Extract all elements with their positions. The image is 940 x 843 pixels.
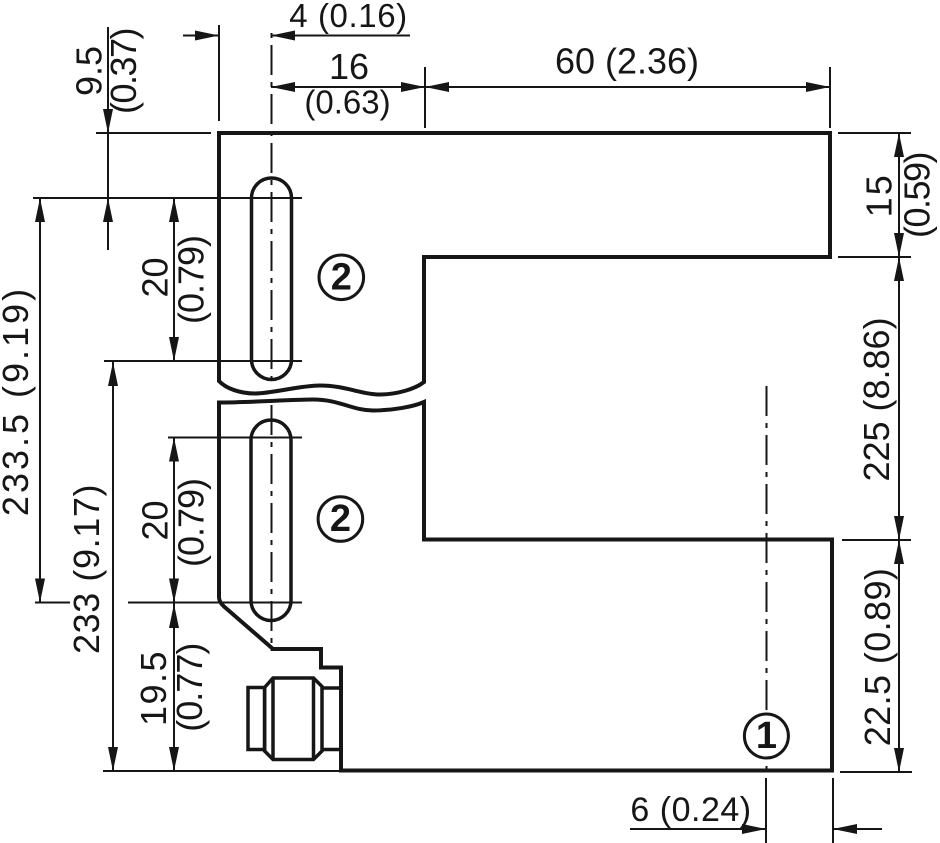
svg-text:16: 16: [329, 46, 369, 87]
svg-text:(0.37): (0.37): [103, 29, 144, 114]
extension line upper slot bottom arc center (y=361): [104, 360, 302, 362]
arrow right 60 dim: [806, 82, 830, 92]
M12 connector hex nut silhouette: [265, 678, 322, 760]
dimension line 20 (0.79) upper: [173, 198, 175, 361]
arrow down 20 upper dim: [169, 337, 179, 361]
arrow up 225 dim: [894, 257, 904, 281]
dimension line 4 (0.16): [183, 35, 219, 37]
centerline lower slot: [271, 405, 273, 651]
centerline optical axis (1): [766, 384, 768, 770]
arrow right at body left edge (4 dim): [195, 31, 219, 41]
svg-text:6 (0.24): 6 (0.24): [630, 791, 751, 829]
svg-text:(0.77): (0.77): [169, 644, 210, 732]
svg-text:15: 15: [859, 173, 900, 217]
extension line lower slot top arc center (y=437.5): [168, 437, 302, 439]
arrow right 16 dim: [401, 82, 425, 92]
M12 connector barrel top line: [322, 686, 342, 690]
lower slot (elongated hole): [251, 420, 291, 621]
M12 connector hex flat line left: [271, 678, 275, 760]
svg-text:(0.79): (0.79): [171, 479, 212, 567]
svg-text:20: 20: [134, 500, 175, 540]
arrow down 233.5 dim: [35, 579, 45, 603]
svg-text:1: 1: [756, 715, 777, 757]
arrow up 20 lower dim: [169, 438, 179, 462]
extension line body bottom right (y=772): [840, 771, 912, 773]
svg-text:(0.59): (0.59): [897, 153, 938, 238]
arrow up 233 dim: [108, 362, 118, 386]
arrow up 20 upper dim: [169, 198, 179, 222]
M12 connector hex flat line right: [312, 678, 316, 760]
arrow down 233 dim: [108, 747, 118, 771]
arrow down 20 lower dim: [169, 579, 179, 603]
svg-text:2: 2: [330, 498, 351, 540]
svg-text:(0.79): (0.79): [171, 236, 212, 324]
arrow up 15 dim: [894, 133, 904, 157]
svg-text:20: 20: [134, 257, 175, 297]
extension line body right (x=830): [829, 67, 831, 128]
extension line notch top right (y=257): [838, 256, 911, 258]
arrow down 15 dim: [894, 233, 904, 257]
body lower section outline: [219, 400, 832, 771]
dimension line 16 (0.63): [271, 86, 425, 88]
dimension line 15 (0.59): [898, 133, 900, 257]
svg-text:4 (0.16): 4 (0.16): [289, 0, 408, 34]
arrow left 6 dim: [833, 824, 857, 834]
arrow up 9.5 dim outside: [103, 198, 113, 222]
dimension line 225 (8.86): [898, 257, 900, 540]
svg-text:60 (2.36): 60 (2.36): [555, 41, 699, 82]
dimension line 9.5 (0.37): [107, 27, 109, 250]
extension line body top left (y=133): [96, 132, 211, 134]
extension line bottom right corner (x=833): [832, 778, 834, 843]
dimension line 233.5 (9.19): [39, 198, 41, 603]
extension line lower slot bottom arc center (y=602.5) segment b: [128, 602, 302, 604]
upper slot (elongated hole): [252, 178, 292, 380]
arrow left at slot center (4 dim): [271, 31, 295, 41]
extension line top left edge (x=219): [218, 25, 220, 121]
body upper section outline: [219, 133, 830, 395]
arrow up 22.5 dim: [894, 540, 904, 564]
dimension line 22.5 (0.89): [898, 540, 900, 772]
dimension line 19.5 (0.77): [173, 603, 175, 772]
arrow right 6 dim: [742, 824, 766, 834]
extension line notch corner (x=425): [424, 67, 426, 128]
arrow left 60 dim: [425, 82, 449, 92]
dimension line 233 (9.17): [112, 362, 114, 771]
arrow down 225 dim: [894, 516, 904, 540]
extension line lower slot bottom arc center (y=602.5) segment a: [35, 602, 70, 604]
arrow down 22.5 dim: [894, 748, 904, 772]
svg-text:(0.63): (0.63): [304, 84, 390, 121]
callout circle 1: [744, 714, 788, 758]
extension line optical axis below (x=766): [765, 778, 767, 843]
extension line body bottom left (y=771): [103, 770, 347, 772]
svg-text:233.5 (9.19): 233.5 (9.19): [0, 286, 36, 516]
M12 connector tip rectangle: [248, 688, 265, 750]
extension line upper slot top arc center (y=198): [33, 197, 302, 199]
arrow down 9.5 dim: [103, 109, 113, 133]
svg-text:233 (9.17): 233 (9.17): [66, 484, 107, 654]
arrow up 19.5 dim: [169, 604, 179, 628]
callout circle 2 upper: [319, 255, 364, 300]
svg-text:2: 2: [331, 256, 352, 298]
arrow left 16 dim: [271, 82, 295, 92]
svg-text:225 (8.86): 225 (8.86): [856, 317, 897, 481]
extension line notch bottom right (y=540): [842, 539, 911, 541]
dimension line 20 (0.79) lower: [173, 438, 175, 603]
dimension line 6 (0.24): [630, 828, 766, 830]
arrow up 233.5 dim: [35, 198, 45, 222]
M12 connector barrel bottom line: [322, 748, 342, 752]
svg-text:22.5 (0.89): 22.5 (0.89): [857, 568, 898, 747]
dimension line 60 (2.36): [425, 86, 830, 88]
arrow down 19.5 dim: [169, 747, 179, 771]
centerline upper slot: [271, 27, 273, 382]
callout circle 2 lower: [318, 497, 363, 542]
extension line body top right (y=133): [838, 132, 911, 134]
